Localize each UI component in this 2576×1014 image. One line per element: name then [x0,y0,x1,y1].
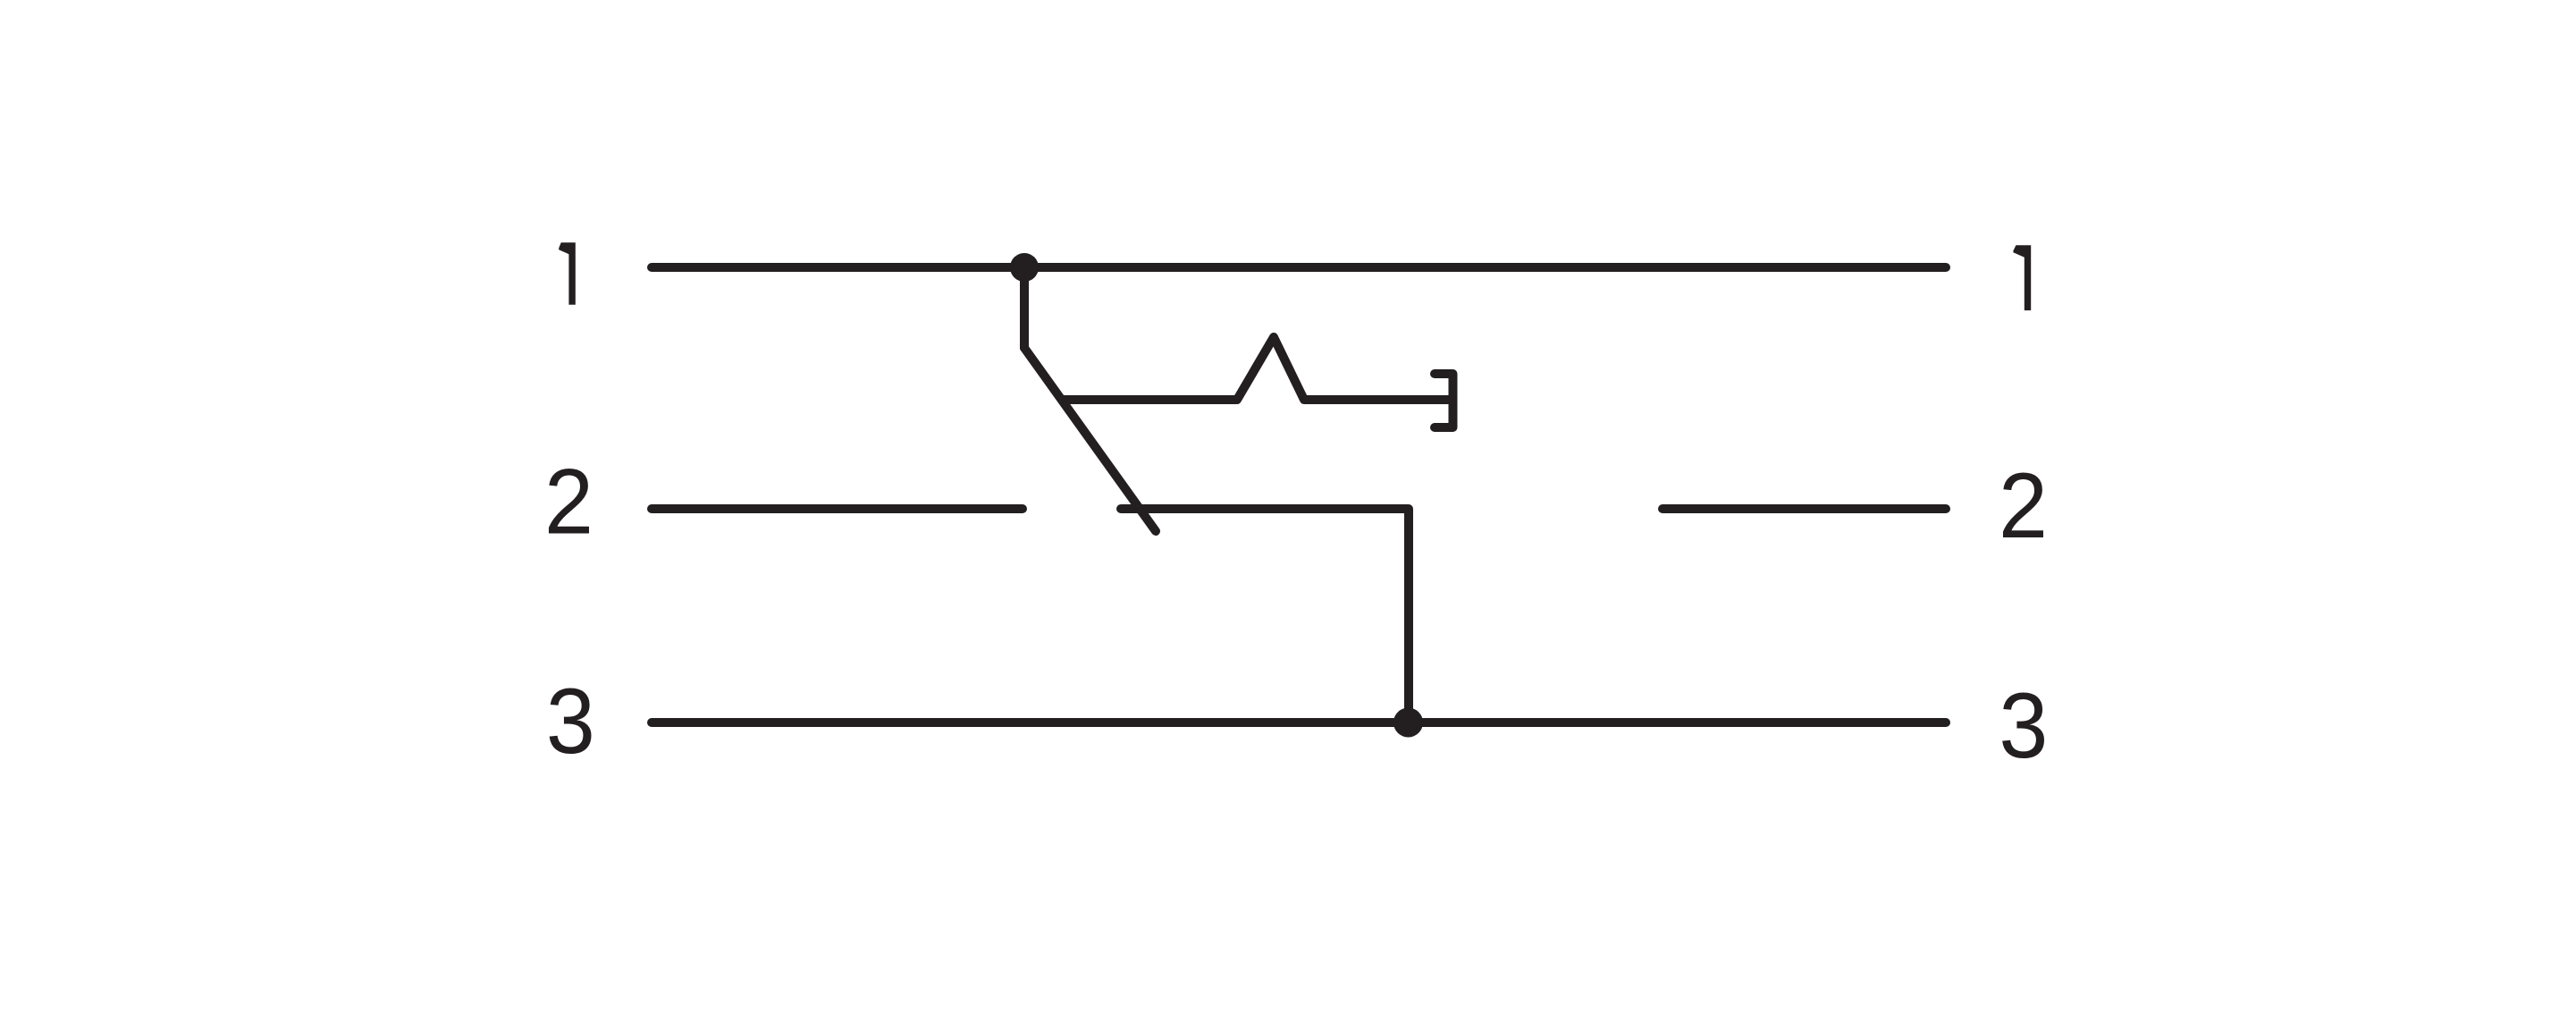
pin label 2 left [544,450,593,553]
switch actuator link with spring peak [1062,337,1453,400]
wire: terminal rail 3 [652,718,1946,727]
pin label 3 left [546,670,595,773]
switch manual actuator bracket [1435,374,1453,427]
svg-text:2: 2 [544,450,593,553]
node: junction on rail 1 [1010,253,1039,282]
wire: switch common drop from rail 1 [1020,267,1029,348]
pin label 2 right [1999,453,2048,557]
pin label 1 left [559,242,576,305]
svg-text:3: 3 [546,670,595,773]
node: junction on rail 3 [1393,708,1423,738]
pin label 3 right [1999,673,2048,777]
wire: rail 2 right stub [1663,504,1946,513]
wire: terminal rail 1 [652,263,1946,272]
svg-text:2: 2 [1999,453,2048,557]
pin label 1 right [2013,245,2031,310]
svg-text:3: 3 [1999,673,2048,777]
wire: rail 2 left stub [652,504,1023,513]
wire: rail 2 centre segment with drop to rail 3 [1121,509,1409,722]
switch movable contact lever [1024,348,1156,531]
